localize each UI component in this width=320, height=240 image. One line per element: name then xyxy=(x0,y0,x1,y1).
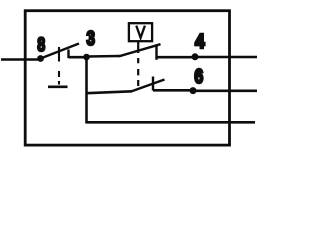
switch S1 movable arm xyxy=(41,44,80,59)
junction dot terminal 4 xyxy=(192,53,199,60)
relay outline box xyxy=(25,11,229,145)
svg-text:8: 8 xyxy=(37,34,45,56)
wire row2 branch xyxy=(87,91,133,93)
switch S2 movable arm xyxy=(119,44,161,56)
terminal 6 lead wire xyxy=(193,90,257,93)
wire S1 contact to node 3 xyxy=(69,56,87,59)
wire node 3 to S2 pivot xyxy=(87,55,121,58)
wire S2 contact to terminal 4 xyxy=(157,56,196,59)
terminal 4 lead wire xyxy=(195,56,257,59)
switch S3 movable arm xyxy=(131,80,165,92)
svg-text:4: 4 xyxy=(195,30,205,53)
junction dot terminal 8 xyxy=(37,55,44,62)
terminal 8 lead wire xyxy=(1,58,40,61)
svg-text:3: 3 xyxy=(86,27,95,50)
actuator stem from V xyxy=(137,42,139,54)
switch S2 fixed contact xyxy=(155,45,157,60)
actuator dashed link V to S3 xyxy=(137,58,139,86)
switch S1 fixed contact xyxy=(67,50,69,59)
mechanical actuator bar xyxy=(48,85,68,88)
junction dot terminal 3 xyxy=(83,54,90,61)
switch S1 actuator tick xyxy=(58,47,60,62)
wire bottom run with elbow xyxy=(87,121,256,124)
switch S1 actuator dashed link xyxy=(58,71,60,85)
svg-text:6: 6 xyxy=(194,64,203,87)
switch S3 fixed contact xyxy=(152,77,154,91)
junction dot terminal 6 xyxy=(190,87,197,94)
wire S3 contact to terminal 6 xyxy=(153,89,193,92)
wire node 3 vertical drop xyxy=(85,57,88,124)
voltage element V label xyxy=(136,26,145,38)
voltage element V box xyxy=(129,23,152,41)
